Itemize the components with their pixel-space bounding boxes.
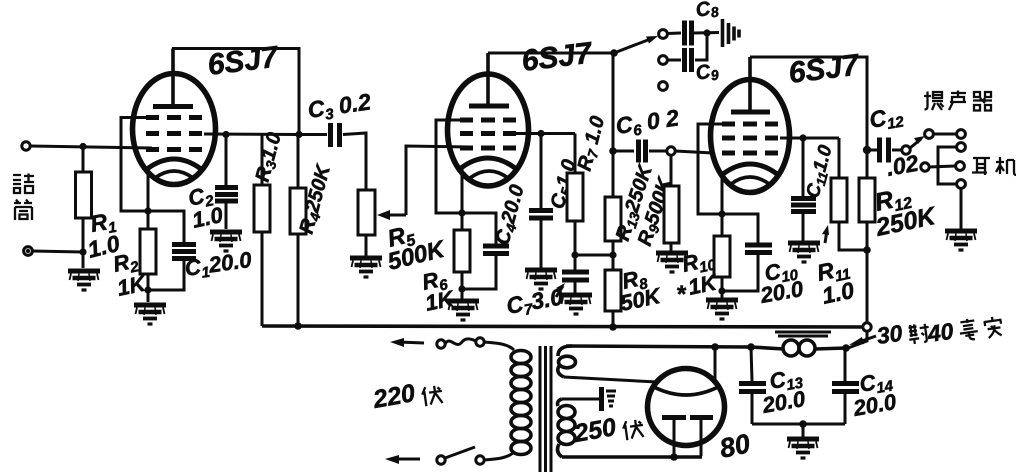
node junction R6/C4 bottom	[458, 285, 465, 292]
node junction B+ takeoff	[711, 343, 719, 351]
wire: V3 suppressor tie to cathode	[698, 124, 724, 214]
wire: V1 cathode lead down	[147, 167, 150, 229]
label headphone 机	[996, 157, 1016, 175]
wire: R3 bottom down to B+ bus	[261, 232, 264, 326]
tube V1 plate lead to top rail	[171, 49, 175, 107]
node: switch contact 2	[659, 56, 668, 65]
resistor R8	[605, 270, 621, 311]
transformer secondary filament winding top	[558, 346, 576, 377]
tube V2 screen grid dashes	[460, 131, 516, 136]
node junction C12 / R12	[863, 146, 871, 154]
svg-text:30: 30	[875, 320, 904, 349]
ground under C5	[525, 270, 557, 289]
ground under C11	[788, 243, 820, 262]
wire: C2 top lead	[225, 134, 228, 186]
label 話 (microphone char 1)	[13, 174, 34, 194]
capacitor C11 (screen bypass)	[791, 199, 816, 212]
wire: C13 bottom lead	[751, 393, 754, 424]
wire: R2 bottom to ground	[147, 274, 150, 302]
node: fuse terminal right	[476, 338, 484, 346]
wire: V2 cathode lead down	[461, 166, 464, 230]
node junction R10/C10 bottom	[718, 287, 725, 294]
wire: C14 bottom lead	[844, 393, 847, 424]
capacitor C8	[685, 21, 692, 46]
capacitor C4 (cathode bypass)	[483, 246, 509, 254]
wire: R1 bottom lead	[82, 218, 85, 268]
wire: C10 bottom branch	[722, 254, 758, 291]
ground under C7	[560, 295, 592, 314]
wire: V1 screen exit to R3/R4 rail	[204, 133, 298, 137]
node junction R7/C7	[571, 251, 578, 258]
ground under R6	[447, 301, 479, 320]
wire: R3 top lead	[261, 135, 264, 186]
tube V3 cathode arc	[723, 164, 777, 174]
node: phone jack top	[957, 143, 966, 152]
capacitor C9	[685, 48, 692, 72]
node junction C6 / R13	[609, 147, 617, 155]
wire: contact2 to C9	[667, 59, 681, 62]
wire: bottom terminal to R1 bottom	[32, 251, 83, 252]
wire: C1 bottom branch	[148, 260, 184, 290]
transformer HV winding 250V	[558, 399, 576, 457]
node: speaker contact right	[957, 130, 966, 139]
wire: C13 top lead	[751, 347, 752, 381]
wire: top rail V3 plate to C12 node	[750, 57, 867, 150]
wire: V2 screen exit	[514, 132, 575, 135]
wire: switch node down to C6 node	[612, 53, 615, 151]
wire: C9 riser from C8 node	[695, 33, 707, 60]
wire: R9 top lead from jack	[670, 155, 673, 186]
filter choke core bar	[775, 332, 831, 336]
tube V1 envelope	[133, 74, 216, 185]
resistor R4	[290, 188, 306, 234]
wire: C3 right lead to R5 top	[343, 133, 366, 190]
capacitor C14 (filter)	[844, 348, 847, 381]
node: switch contact 3	[659, 82, 668, 91]
wire: filter ground stem	[802, 424, 805, 437]
wire: C11 bottom lead	[802, 212, 805, 241]
annotation arrow 30-40 mA	[856, 336, 876, 343]
wire: bus circle down to choke output	[848, 331, 867, 348]
wire: speaker contact pair link	[933, 133, 956, 136]
wire: C8 to chassis ground	[694, 31, 719, 35]
resistor R11	[831, 178, 847, 222]
tube V1 plate bar	[153, 104, 193, 109]
wire: input top terminal to grid of V1	[30, 146, 152, 148]
label headphone 耳	[972, 158, 990, 175]
power switch arm	[445, 447, 475, 458]
node junction R4/bus	[294, 322, 302, 330]
tube V2 suppressor grid dashes	[460, 118, 516, 123]
node: fuse terminal left	[437, 340, 445, 348]
capacitor C10 (cathode bypass)	[745, 245, 772, 253]
wire: R13 bottom lead	[612, 241, 615, 270]
node: switch terminal left	[437, 456, 445, 464]
wire: B+ line from filament winding to choke	[566, 346, 750, 347]
tube V1 suppressor grid dashes	[146, 115, 202, 120]
wire: phone jack bracket	[938, 147, 956, 184]
wire: R5 bottom to ground	[365, 235, 368, 256]
wire: AC line top with arrow	[398, 342, 424, 343]
wire: C4 top branch	[462, 213, 496, 244]
wire: filament return bottom	[562, 455, 702, 459]
wire: C6 right lead to jack	[649, 150, 667, 153]
wire: C5 top lead	[540, 134, 543, 210]
wire: C5 bottom lead	[540, 219, 543, 268]
rectifier 80 plate arc	[652, 386, 720, 395]
node junction filter ground	[799, 420, 807, 428]
wire: R4 top lead	[297, 135, 300, 189]
wire: R12 bottom lead	[866, 222, 869, 322]
wire: phone contact pair link	[929, 166, 955, 167]
tube V1 heater arc	[155, 171, 193, 178]
wire: R7 bottom over to R13/R8 junction	[575, 254, 612, 257]
node junction V3 cathode	[718, 210, 725, 217]
wire: C4 bottom branch	[462, 255, 496, 289]
tube V2 plate lead up to rail	[486, 53, 490, 106]
wire: C7 top lead	[574, 255, 577, 270]
capacitor C6 (coupling)	[639, 140, 646, 163]
wire: R7 bottom lead	[574, 221, 577, 255]
wire: jack ground lug down	[960, 188, 963, 229]
filter choke winding	[751, 340, 846, 356]
wire: R11 top lead	[838, 138, 841, 178]
wire: C11 top lead	[802, 138, 805, 197]
capacitor C5 (screen bypass)	[529, 211, 553, 219]
node junction C11 tap	[799, 134, 806, 141]
node junction C8/C9	[703, 29, 710, 36]
wire: B+ takeoff down to rectifier	[714, 347, 717, 381]
node junction C13	[747, 343, 755, 351]
tube V2 heater arc	[470, 171, 508, 178]
ground under R10	[706, 300, 738, 319]
wire: R8 bottom to B+ bus	[612, 311, 615, 327]
resistor R3	[254, 185, 270, 232]
node junction at R1 top	[79, 143, 86, 150]
wire: V1 suppressor tie to cathode	[121, 118, 148, 212]
node junction R11/R12 bottom	[863, 246, 871, 254]
transformer core	[540, 346, 551, 472]
tube V3 suppressor grid dashes	[722, 122, 778, 127]
wire: V3 cathode lead down	[721, 172, 724, 236]
wire: B+ bus across bottom	[262, 326, 867, 327]
node junction at R1 bottom / input return	[79, 248, 86, 255]
wire: V2 suppressor tie to cathode	[436, 120, 462, 213]
resistor R12	[859, 178, 875, 222]
capacitor C2 (screen bypass)	[215, 188, 238, 202]
svg-text:C8: C8	[694, 0, 720, 23]
node junction switch arm root	[610, 49, 618, 57]
capacitor C7 (decoupling)	[562, 272, 589, 280]
rectifier tube 80 envelope	[648, 369, 725, 446]
wire: output switch arm	[910, 139, 921, 148]
wire: R6 bottom to ground	[461, 272, 464, 299]
capacitor C1 (cathode bypass)	[172, 245, 196, 259]
wire: R11 bottom over to R12 bottom	[839, 222, 867, 250]
wire: selector switch arm	[614, 38, 653, 53]
node junction V1 cathode	[144, 207, 151, 214]
node junction filament return	[670, 453, 678, 461]
wire: wiper up and to V2 grid	[406, 146, 470, 215]
node: speaker contact left	[925, 130, 934, 139]
fuse F1	[445, 339, 476, 345]
node junction plate rail / C3	[295, 131, 302, 138]
wire: R5 wiper arm with arrowhead	[382, 214, 406, 217]
node junction V2 cathode	[458, 209, 465, 216]
node: input terminal top (microphone +)	[22, 142, 30, 150]
wire: C1 top branch	[148, 211, 184, 243]
capacitor C3 (coupling)	[331, 123, 340, 147]
wire: switch to primary bottom	[484, 452, 514, 460]
node: phone contact left	[921, 163, 929, 171]
node junction R13/R8	[609, 251, 616, 258]
resistor R7	[567, 173, 583, 221]
wire: R7 top lead	[574, 134, 577, 174]
resistor R13	[605, 197, 621, 241]
wire: filament leg right	[700, 419, 703, 456]
wire: V2 plate rail to switch node	[488, 52, 614, 55]
node: jack ground lug	[957, 180, 966, 189]
node junction R2/C1 bottom	[144, 286, 151, 293]
node: bus terminal circle at right	[863, 323, 871, 331]
node junction C2 tap	[222, 131, 229, 138]
chassis ground at C8	[723, 19, 740, 47]
wire: C12 left lead	[867, 149, 877, 152]
capacitor C12 (output coupling)	[880, 138, 889, 163]
svg-text:40: 40	[925, 318, 955, 347]
wire: C12 right lead	[892, 149, 901, 152]
label speaker 揚	[924, 92, 944, 111]
wire: C10 top branch	[722, 214, 758, 243]
node junction C5 tap	[537, 130, 544, 137]
tube V2 cathode arc	[461, 158, 515, 168]
tube V2 envelope	[448, 74, 529, 186]
resistor R2	[140, 229, 156, 274]
tube V2 control grid dashes	[460, 146, 516, 151]
tube V3 screen grid dashes	[722, 136, 778, 141]
tube V1 cathode arc	[147, 159, 201, 169]
capacitor: HV bypass to chassis	[599, 387, 604, 411]
wire: R13 top lead	[612, 151, 615, 197]
ground under output jack	[945, 231, 977, 250]
resistor R6	[454, 230, 470, 272]
wire: R1 top lead	[82, 146, 85, 172]
wire: AC line bottom with arrow	[393, 458, 420, 461]
capacitor C13 (filter)	[739, 384, 766, 392]
annotation arrow near C7	[556, 286, 563, 297]
rectifier 80 filament bar right	[690, 415, 713, 420]
node: output switch pole	[902, 146, 910, 154]
label speaker 声	[949, 91, 966, 111]
wire: rectifier plate feed	[564, 377, 657, 382]
tube V3 control grid dashes	[722, 151, 778, 156]
resistor R9 (grid leak)	[664, 186, 679, 243]
ground under R2	[134, 305, 166, 324]
node: jack circle at V3 grid	[667, 147, 675, 155]
wire: top rail V1 plate over to dropping line	[172, 49, 299, 135]
wire: R9 bottom to ground	[670, 243, 673, 251]
ground under C2	[210, 232, 242, 251]
ground under R1	[68, 271, 100, 290]
wire: contact1 to C8	[667, 32, 681, 36]
wire: R4 bottom down to B+ bus	[297, 234, 300, 326]
label speaker 器	[973, 92, 992, 111]
node: switch terminal right	[476, 456, 484, 464]
tube V3 plate lead up to rail	[748, 57, 752, 112]
tube V3 heater arc	[731, 177, 769, 184]
label 筒 (microphone char 2)	[14, 200, 32, 221]
node: input terminal bottom (microphone -)	[24, 247, 33, 256]
wire: C3 left lead	[299, 133, 327, 136]
resistor R1	[76, 172, 92, 218]
rectifier 80 filament bar left	[662, 415, 686, 420]
wire: filter ground link	[752, 423, 845, 426]
ground under R5	[350, 258, 382, 277]
tube V1 screen grid dashes	[146, 131, 202, 136]
transformer primary winding	[511, 351, 531, 455]
node: switch contact 1	[659, 30, 668, 39]
tube V2 plate bar	[469, 104, 509, 109]
wire: C7 bottom lead	[574, 281, 577, 293]
node junction C14/choke output	[842, 344, 850, 352]
svg-text:80: 80	[717, 428, 753, 464]
wire: R12 top lead	[866, 150, 869, 178]
node junction R8/bus	[609, 323, 617, 331]
wire: fuse to primary top	[484, 342, 514, 350]
wire: filament leg left	[673, 419, 676, 457]
wire: R10 bottom to ground	[721, 277, 724, 298]
wire: C6 left lead	[613, 150, 634, 153]
ground under R9	[656, 253, 688, 272]
tube V3 plate bar	[731, 110, 770, 115]
wire: C2 bottom lead	[225, 202, 228, 229]
resistor R10	[714, 236, 730, 277]
annotation arrow at R11	[825, 230, 827, 243]
tube V3 envelope	[711, 80, 790, 193]
node: phone contact right	[956, 162, 965, 171]
tube V1 control grid dashes	[146, 147, 202, 152]
wire: HV tap to bypass cap	[562, 398, 599, 401]
wire: V3 screen exit	[780, 137, 839, 140]
wire: jack to V3 grid	[675, 151, 713, 153]
potentiometer R5 (volume)	[358, 190, 375, 235]
ground under filter	[787, 439, 819, 458]
